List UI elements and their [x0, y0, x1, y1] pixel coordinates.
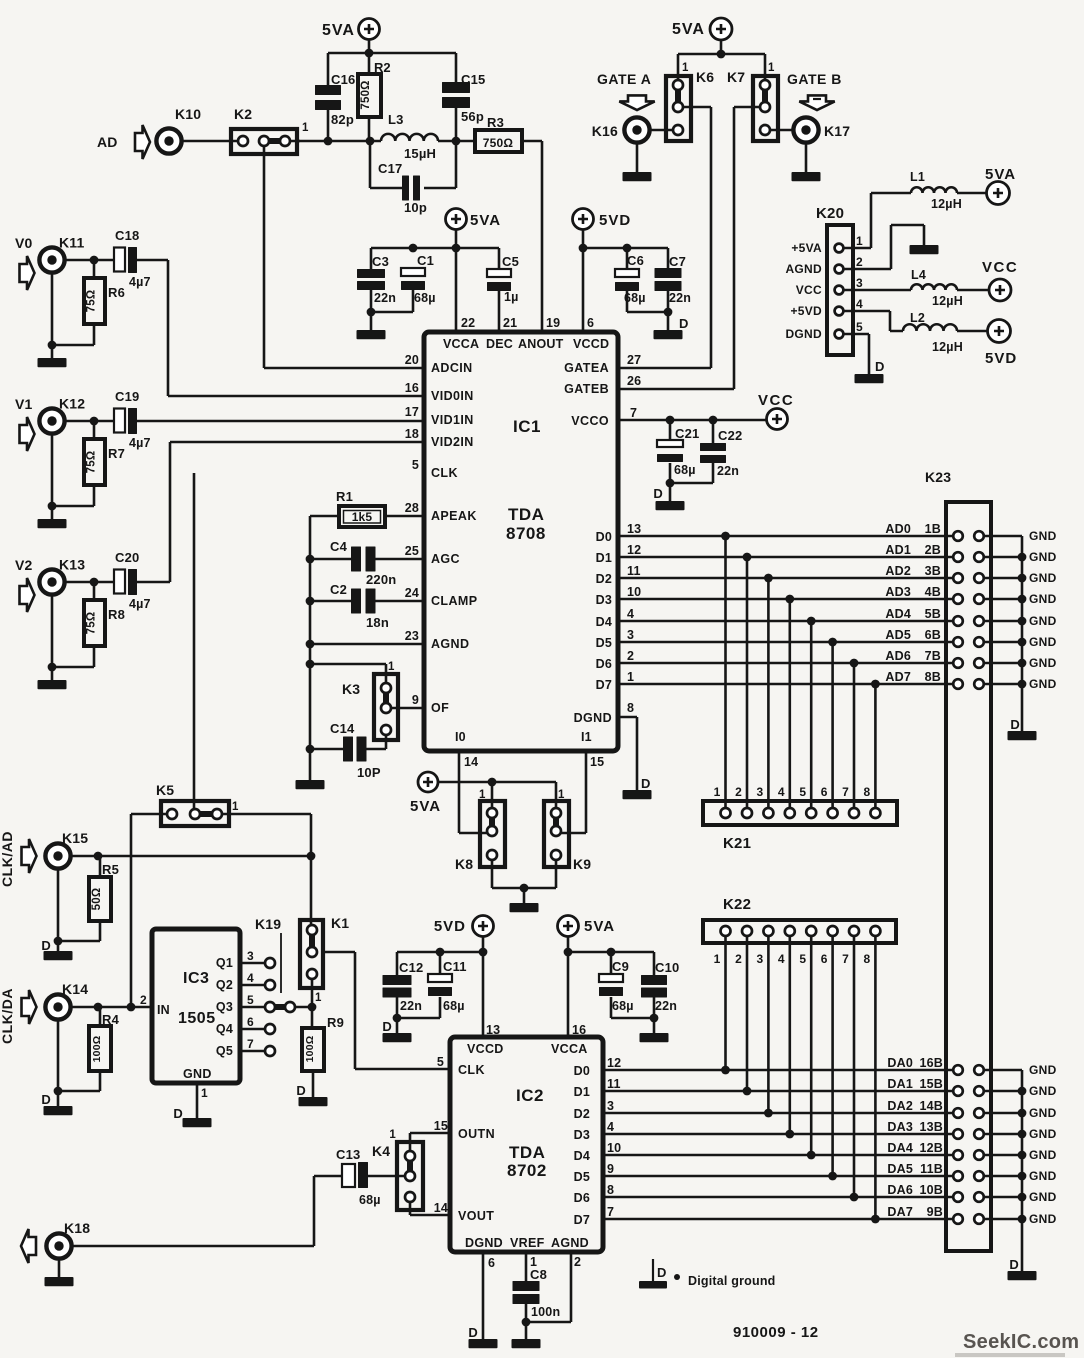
svg-text:VID1IN: VID1IN	[431, 413, 474, 427]
svg-text:TDA: TDA	[508, 505, 544, 524]
svg-text:C3: C3	[372, 254, 389, 269]
svg-text:APEAK: APEAK	[431, 509, 477, 523]
svg-text:K19: K19	[255, 916, 281, 932]
svg-text:VCCD: VCCD	[573, 337, 609, 351]
svg-text:GATEB: GATEB	[564, 382, 609, 396]
svg-text:5: 5	[437, 1055, 444, 1069]
svg-text:7: 7	[607, 1205, 614, 1219]
svg-text:13B: 13B	[919, 1120, 943, 1134]
svg-text:6B: 6B	[925, 628, 941, 642]
svg-text:3: 3	[247, 949, 254, 963]
svg-text:5VD: 5VD	[985, 350, 1017, 367]
svg-text:K14: K14	[62, 981, 88, 997]
svg-text:4: 4	[856, 297, 863, 311]
svg-text:I1: I1	[581, 730, 592, 744]
svg-text:3: 3	[607, 1099, 614, 1113]
svg-text:10: 10	[607, 1141, 621, 1155]
svg-text:V1: V1	[15, 396, 33, 412]
svg-text:DA2: DA2	[887, 1099, 913, 1113]
svg-text:DGND: DGND	[465, 1236, 503, 1250]
svg-text:OUTN: OUTN	[458, 1127, 495, 1141]
svg-text:22n: 22n	[717, 464, 739, 478]
svg-text:DA0: DA0	[887, 1056, 913, 1070]
svg-text:DA5: DA5	[887, 1162, 913, 1176]
svg-text:AGC: AGC	[431, 552, 460, 566]
svg-text:K17: K17	[824, 123, 850, 139]
svg-text:18n: 18n	[366, 615, 389, 630]
svg-text:D: D	[875, 359, 885, 374]
svg-text:10P: 10P	[357, 765, 381, 780]
svg-text:IC3: IC3	[183, 970, 209, 987]
svg-text:7: 7	[842, 952, 849, 966]
svg-text:21: 21	[503, 316, 517, 330]
svg-text:5: 5	[799, 785, 806, 799]
svg-text:1: 1	[627, 670, 634, 684]
svg-text:56p: 56p	[461, 109, 484, 124]
svg-text:C12: C12	[399, 960, 423, 975]
svg-text:K9: K9	[573, 856, 591, 872]
svg-text:1: 1	[714, 785, 721, 799]
svg-text:D0: D0	[574, 1064, 590, 1078]
svg-text:K5: K5	[156, 782, 174, 798]
svg-text:GND: GND	[1029, 1106, 1057, 1120]
svg-text:R9: R9	[327, 1015, 344, 1030]
svg-text:75Ω: 75Ω	[86, 612, 98, 635]
svg-text:GND: GND	[1029, 571, 1057, 585]
svg-text:5VA: 5VA	[322, 22, 355, 39]
svg-text:6: 6	[821, 785, 828, 799]
svg-text:D5: D5	[596, 636, 612, 650]
svg-text:100Ω: 100Ω	[91, 1036, 103, 1063]
svg-text:DA4: DA4	[887, 1141, 913, 1155]
svg-text:SeekIC.com: SeekIC.com	[963, 1331, 1079, 1353]
svg-text:19: 19	[546, 316, 560, 330]
svg-text:11: 11	[627, 564, 641, 578]
svg-text:D1: D1	[574, 1085, 590, 1099]
svg-text:C5: C5	[502, 254, 519, 269]
svg-text:AGND: AGND	[431, 637, 469, 651]
svg-text:3: 3	[627, 628, 634, 642]
svg-text:K6: K6	[696, 69, 714, 85]
svg-text:K16: K16	[592, 123, 618, 139]
svg-text:ANOUT: ANOUT	[518, 337, 564, 351]
svg-text:C10: C10	[655, 960, 679, 975]
svg-text:VCC: VCC	[758, 392, 794, 409]
svg-text:GND: GND	[1029, 635, 1057, 649]
svg-text:10B: 10B	[919, 1183, 943, 1197]
svg-text:+5VA: +5VA	[791, 241, 822, 255]
svg-text:R4: R4	[102, 1012, 120, 1027]
svg-text:3: 3	[856, 276, 863, 290]
svg-text:22n: 22n	[400, 999, 422, 1013]
svg-text:1k5: 1k5	[352, 510, 373, 524]
svg-text:GND: GND	[1029, 592, 1057, 606]
svg-text:AD0: AD0	[885, 522, 911, 536]
svg-text:GATE A: GATE A	[597, 71, 651, 87]
svg-text:1: 1	[201, 1086, 208, 1100]
svg-text:12B: 12B	[919, 1141, 943, 1155]
svg-text:14: 14	[434, 1201, 448, 1215]
svg-text:K18: K18	[64, 1220, 90, 1236]
svg-text:4µ7: 4µ7	[129, 275, 151, 289]
svg-text:7: 7	[630, 406, 637, 420]
svg-text:R2: R2	[374, 60, 391, 75]
svg-text:K12: K12	[59, 396, 85, 412]
svg-text:D: D	[41, 938, 51, 953]
svg-text:+5VD: +5VD	[790, 304, 822, 318]
svg-text:D0: D0	[596, 530, 612, 544]
svg-text:L3: L3	[388, 112, 404, 127]
svg-text:GND: GND	[1029, 656, 1057, 670]
svg-text:28: 28	[405, 501, 419, 515]
svg-text:GND: GND	[1029, 1063, 1057, 1077]
svg-text:8: 8	[864, 785, 871, 799]
svg-text:K1: K1	[331, 915, 349, 931]
svg-text:C9: C9	[612, 959, 629, 974]
svg-text:L4: L4	[911, 268, 926, 282]
svg-text:Q3: Q3	[216, 1000, 233, 1014]
svg-text:VCCA: VCCA	[443, 337, 479, 351]
svg-text:K8: K8	[455, 856, 473, 872]
svg-text:1B: 1B	[925, 522, 941, 536]
svg-text:R1: R1	[336, 489, 353, 504]
svg-text:3B: 3B	[925, 564, 941, 578]
svg-text:22n: 22n	[655, 999, 677, 1013]
svg-text:GND: GND	[1029, 550, 1057, 564]
svg-text:R7: R7	[108, 446, 125, 461]
svg-text:D7: D7	[596, 678, 612, 692]
svg-text:D: D	[468, 1325, 478, 1340]
svg-text:1: 1	[768, 62, 775, 74]
svg-text:9: 9	[412, 693, 419, 707]
svg-text:68µ: 68µ	[359, 1193, 381, 1207]
svg-text:3: 3	[757, 952, 764, 966]
svg-text:VREF: VREF	[510, 1236, 545, 1250]
svg-text:CLAMP: CLAMP	[431, 594, 477, 608]
svg-text:100n: 100n	[531, 1305, 560, 1319]
svg-text:2B: 2B	[925, 543, 941, 557]
svg-text:D2: D2	[596, 572, 612, 586]
svg-text:220n: 220n	[366, 572, 396, 587]
svg-text:11B: 11B	[920, 1162, 943, 1176]
svg-text:100Ω: 100Ω	[304, 1036, 316, 1063]
svg-text:D: D	[1010, 717, 1020, 732]
svg-text:K22: K22	[723, 896, 751, 913]
svg-text:C1: C1	[417, 253, 434, 268]
svg-text:68µ: 68µ	[612, 999, 634, 1013]
svg-text:D2: D2	[574, 1107, 590, 1121]
svg-text:CLK: CLK	[431, 466, 458, 480]
svg-text:75Ω: 75Ω	[86, 290, 98, 313]
svg-text:VCC: VCC	[796, 283, 822, 297]
svg-text:Q4: Q4	[216, 1022, 233, 1036]
svg-text:8: 8	[627, 701, 634, 715]
svg-text:5: 5	[247, 993, 254, 1007]
svg-text:K23: K23	[925, 469, 951, 485]
svg-text:Q2: Q2	[216, 978, 233, 992]
svg-text:18: 18	[405, 427, 419, 441]
svg-text:1: 1	[479, 789, 486, 801]
svg-text:DGND: DGND	[785, 327, 822, 341]
svg-text:D: D	[382, 1019, 392, 1034]
svg-text:L1: L1	[910, 170, 925, 184]
svg-text:GND: GND	[1029, 614, 1057, 628]
svg-text:I0: I0	[455, 730, 466, 744]
svg-text:4µ7: 4µ7	[129, 597, 151, 611]
svg-text:5VA: 5VA	[584, 918, 615, 935]
svg-text:10: 10	[627, 585, 641, 599]
svg-text:14: 14	[464, 755, 478, 769]
svg-text:D5: D5	[574, 1170, 590, 1184]
svg-text:4: 4	[627, 607, 634, 621]
svg-text:DA7: DA7	[887, 1205, 913, 1219]
svg-text:1: 1	[389, 1129, 396, 1141]
svg-text:K21: K21	[723, 835, 751, 852]
svg-text:GND: GND	[1029, 1190, 1057, 1204]
svg-text:D: D	[657, 1265, 667, 1280]
svg-text:GND: GND	[1029, 1212, 1057, 1226]
svg-text:2: 2	[735, 952, 742, 966]
svg-text:C8: C8	[530, 1267, 547, 1282]
svg-text:D4: D4	[574, 1149, 590, 1163]
svg-text:26: 26	[627, 374, 641, 388]
svg-text:Digital ground: Digital ground	[688, 1274, 776, 1288]
svg-text:6: 6	[587, 316, 594, 330]
svg-text:68µ: 68µ	[624, 291, 646, 305]
svg-text:K15: K15	[62, 830, 88, 846]
svg-text:68µ: 68µ	[674, 463, 696, 477]
svg-text:D4: D4	[596, 615, 612, 629]
svg-text:R3: R3	[487, 115, 504, 130]
svg-text:C14: C14	[330, 721, 355, 736]
svg-text:C17: C17	[378, 161, 402, 176]
svg-text:D: D	[679, 316, 689, 331]
svg-text:23: 23	[405, 629, 419, 643]
svg-text:5: 5	[799, 952, 806, 966]
svg-text:GND: GND	[1029, 677, 1057, 691]
svg-text:K10: K10	[175, 106, 201, 122]
svg-text:K2: K2	[234, 106, 252, 122]
svg-text:2: 2	[627, 649, 634, 663]
svg-text:C2: C2	[330, 582, 347, 597]
svg-text:VID2IN: VID2IN	[431, 435, 474, 449]
svg-text:12: 12	[627, 543, 641, 557]
svg-text:VCCO: VCCO	[571, 414, 609, 428]
svg-text:1: 1	[682, 62, 689, 74]
svg-text:R5: R5	[102, 862, 119, 877]
svg-text:4: 4	[247, 971, 254, 985]
svg-text:910009 - 12: 910009 - 12	[733, 1324, 819, 1341]
svg-text:GND: GND	[1029, 1127, 1057, 1141]
svg-text:5B: 5B	[925, 607, 941, 621]
svg-text:VID0IN: VID0IN	[431, 389, 474, 403]
svg-text:V0: V0	[15, 235, 33, 251]
svg-text:CLK/AD: CLK/AD	[0, 831, 15, 887]
svg-text:9B: 9B	[927, 1205, 943, 1219]
svg-text:V2: V2	[15, 557, 33, 573]
svg-text:D: D	[41, 1092, 51, 1107]
svg-text:4B: 4B	[925, 585, 941, 599]
svg-text:C13: C13	[336, 1147, 360, 1162]
svg-text:D6: D6	[574, 1191, 590, 1205]
svg-text:C22: C22	[718, 428, 742, 443]
svg-text:GND: GND	[1029, 1084, 1057, 1098]
svg-text:K4: K4	[372, 1143, 390, 1159]
svg-text:TDA: TDA	[509, 1143, 545, 1162]
svg-text:2: 2	[735, 785, 742, 799]
svg-text:5VA: 5VA	[672, 21, 705, 38]
svg-text:GND: GND	[183, 1067, 212, 1081]
svg-text:D1: D1	[596, 551, 612, 565]
svg-text:22n: 22n	[669, 291, 691, 305]
svg-text:AD2: AD2	[885, 564, 911, 578]
svg-text:22: 22	[461, 316, 475, 330]
svg-text:8: 8	[607, 1183, 614, 1197]
svg-text:DGND: DGND	[574, 711, 612, 725]
svg-text:L2: L2	[910, 311, 925, 325]
svg-text:K7: K7	[727, 69, 745, 85]
svg-text:16: 16	[405, 381, 419, 395]
svg-text:50Ω: 50Ω	[91, 888, 103, 911]
svg-text:D: D	[1009, 1257, 1019, 1272]
svg-text:D: D	[653, 486, 663, 501]
svg-text:12: 12	[607, 1056, 621, 1070]
svg-text:D7: D7	[574, 1213, 590, 1227]
svg-text:4: 4	[778, 952, 785, 966]
svg-text:K13: K13	[59, 557, 85, 573]
svg-text:9: 9	[607, 1162, 614, 1176]
svg-text:AD6: AD6	[885, 649, 911, 663]
svg-text:12µH: 12µH	[932, 340, 963, 354]
svg-text:25: 25	[405, 544, 419, 558]
svg-text:13: 13	[627, 522, 641, 536]
svg-text:GND: GND	[1029, 1169, 1057, 1183]
svg-text:6: 6	[821, 952, 828, 966]
svg-text:GATE B: GATE B	[787, 71, 842, 87]
svg-text:1: 1	[388, 661, 395, 673]
svg-text:C15: C15	[461, 72, 485, 87]
svg-text:68µ: 68µ	[443, 999, 465, 1013]
svg-text:2: 2	[574, 1255, 581, 1269]
svg-text:750Ω: 750Ω	[483, 136, 514, 150]
svg-text:C11: C11	[443, 959, 467, 974]
svg-text:5VD: 5VD	[599, 212, 631, 229]
svg-text:VCCA: VCCA	[551, 1042, 588, 1056]
svg-text:C7: C7	[669, 254, 686, 269]
svg-text:K3: K3	[342, 681, 360, 697]
svg-text:12µH: 12µH	[931, 197, 962, 211]
svg-text:75Ω: 75Ω	[86, 451, 98, 474]
svg-text:15B: 15B	[919, 1077, 943, 1091]
svg-text:20: 20	[405, 353, 419, 367]
svg-text:AD4: AD4	[885, 607, 911, 621]
svg-text:AD5: AD5	[885, 628, 911, 642]
svg-text:D: D	[173, 1106, 183, 1121]
svg-text:VCC: VCC	[982, 259, 1018, 276]
svg-text:8: 8	[864, 952, 871, 966]
svg-text:AD: AD	[97, 134, 118, 150]
svg-text:15µH: 15µH	[404, 146, 436, 161]
svg-text:OF: OF	[431, 701, 449, 715]
svg-text:5VA: 5VA	[410, 798, 441, 815]
svg-text:D3: D3	[596, 593, 612, 607]
svg-text:7B: 7B	[925, 649, 941, 663]
svg-text:15: 15	[590, 755, 604, 769]
svg-text:1: 1	[714, 952, 721, 966]
svg-text:2: 2	[140, 993, 147, 1007]
svg-text:ADCIN: ADCIN	[431, 361, 473, 375]
svg-text:C20: C20	[115, 550, 139, 565]
svg-text:VOUT: VOUT	[458, 1209, 494, 1223]
svg-text:4: 4	[778, 785, 785, 799]
svg-text:750Ω: 750Ω	[360, 80, 372, 109]
svg-text:R8: R8	[108, 607, 125, 622]
svg-text:GATEA: GATEA	[564, 361, 609, 375]
svg-text:82p: 82p	[331, 112, 354, 127]
svg-text:C4: C4	[330, 539, 348, 554]
svg-text:Q1: Q1	[216, 956, 233, 970]
svg-text:12µH: 12µH	[932, 294, 963, 308]
svg-text:DA6: DA6	[887, 1183, 913, 1197]
svg-text:16B: 16B	[919, 1056, 943, 1070]
svg-text:CLK: CLK	[458, 1063, 485, 1077]
svg-text:IC1: IC1	[513, 417, 541, 436]
svg-text:10p: 10p	[404, 200, 427, 215]
svg-text:C19: C19	[115, 389, 139, 404]
svg-text:R6: R6	[108, 285, 125, 300]
svg-text:1: 1	[302, 122, 309, 134]
svg-text:IC2: IC2	[516, 1086, 544, 1105]
svg-text:D6: D6	[596, 657, 612, 671]
svg-text:GND: GND	[1029, 529, 1057, 543]
svg-text:3: 3	[757, 785, 764, 799]
svg-text:68µ: 68µ	[414, 291, 436, 305]
svg-text:AD1: AD1	[885, 543, 911, 557]
svg-text:AD3: AD3	[885, 585, 911, 599]
svg-text:1: 1	[558, 789, 565, 801]
svg-text:5: 5	[412, 458, 419, 472]
svg-text:6: 6	[488, 1256, 495, 1270]
svg-text:D: D	[641, 776, 651, 791]
svg-text:8B: 8B	[925, 670, 941, 684]
svg-text:5VD: 5VD	[434, 918, 466, 935]
svg-text:IN: IN	[157, 1003, 170, 1017]
svg-text:2: 2	[856, 255, 863, 269]
svg-text:DA1: DA1	[887, 1077, 913, 1091]
svg-text:8702: 8702	[507, 1161, 547, 1180]
svg-text:1: 1	[856, 234, 863, 248]
svg-text:5VA: 5VA	[985, 166, 1016, 183]
svg-text:27: 27	[627, 353, 641, 367]
svg-text:14B: 14B	[919, 1099, 943, 1113]
svg-text:5VA: 5VA	[470, 212, 501, 229]
svg-text:1505: 1505	[178, 1010, 216, 1027]
svg-text:K11: K11	[59, 235, 85, 251]
svg-text:D3: D3	[574, 1128, 590, 1142]
svg-text:D: D	[296, 1083, 306, 1098]
svg-text:C16: C16	[331, 72, 355, 87]
svg-text:7: 7	[247, 1037, 254, 1051]
svg-text:Q5: Q5	[216, 1044, 233, 1058]
svg-text:DEC: DEC	[486, 337, 513, 351]
svg-text:8708: 8708	[506, 524, 546, 543]
svg-text:K20: K20	[816, 205, 844, 222]
svg-text:AGND: AGND	[551, 1236, 589, 1250]
svg-text:C21: C21	[675, 426, 699, 441]
svg-text:7: 7	[842, 785, 849, 799]
svg-text:CLK/DA: CLK/DA	[0, 988, 15, 1044]
svg-text:1µ: 1µ	[504, 290, 519, 304]
